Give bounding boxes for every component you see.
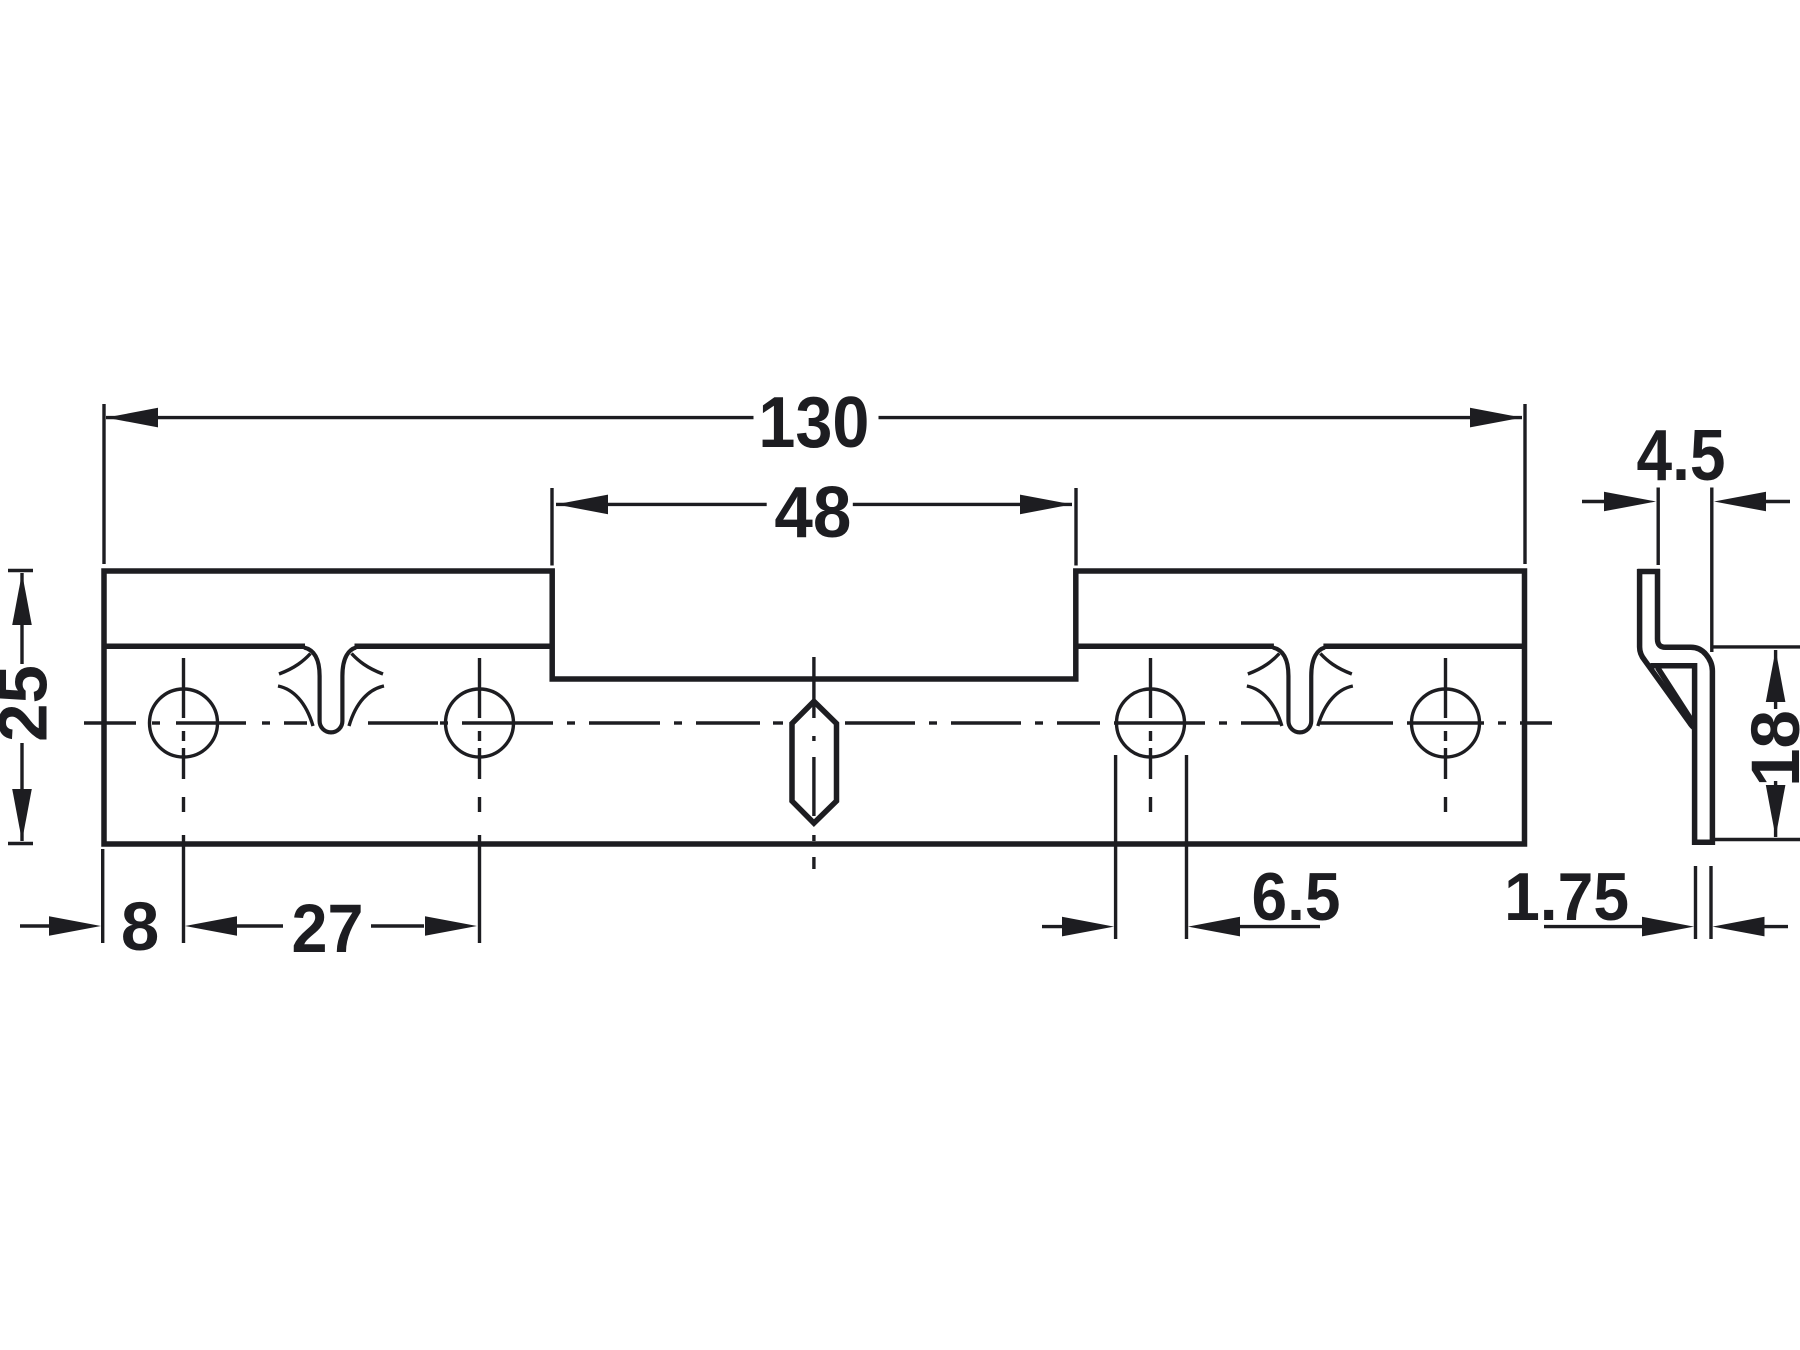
svg-text:6.5: 6.5 — [1252, 859, 1341, 935]
svg-text:18: 18 — [1737, 710, 1800, 787]
svg-text:27: 27 — [292, 890, 364, 967]
svg-text:48: 48 — [774, 473, 851, 553]
svg-text:130: 130 — [758, 383, 869, 463]
svg-text:1.75: 1.75 — [1504, 859, 1629, 935]
svg-text:4.5: 4.5 — [1637, 416, 1726, 496]
svg-text:25: 25 — [0, 665, 62, 742]
svg-text:8: 8 — [121, 888, 159, 965]
